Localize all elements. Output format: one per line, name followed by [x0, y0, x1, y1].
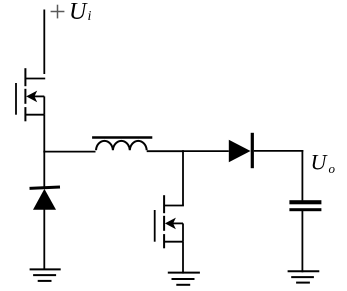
transistor Q1 (upper MOSFET)	[16, 68, 45, 121]
diode D1 (vertical, cathode up)	[29, 186, 60, 210]
wire: node A down to D1 cathode	[43, 152, 45, 187]
svg-text:U: U	[311, 149, 329, 174]
node A: junction of Q1 source, D1 cathode, inductor	[43, 151, 45, 153]
label +Ui (input voltage)	[51, 0, 92, 25]
wire: output corner down to capacitor top plate	[301, 150, 303, 200]
wire: node B down to Q2 drain	[182, 150, 184, 205]
label Uo (output voltage)	[311, 149, 336, 176]
svg-text:U: U	[69, 0, 88, 25]
diode D2 (horizontal, series output diode)	[229, 133, 254, 168]
svg-text:o: o	[329, 161, 336, 176]
wire: capacitor bottom plate to ground	[301, 211, 303, 272]
wire: +Ui down to Q1 drain	[43, 10, 45, 75]
wire: D1 anode down to ground	[43, 209, 45, 269]
transistor Q2 (lower MOSFET)	[155, 195, 184, 248]
ground (below Q2)	[168, 273, 200, 285]
capacitor C (output filter)	[289, 200, 321, 211]
ground (below D1)	[30, 269, 61, 281]
svg-text:i: i	[88, 9, 92, 24]
inductor L	[92, 138, 152, 151]
wire: inductor right terminal to node B	[147, 150, 183, 152]
wire: node A to inductor left terminal	[43, 151, 95, 153]
wire: node B to D2 anode	[183, 150, 229, 152]
wire: Q1 source down to node A	[43, 115, 45, 152]
node B: junction of inductor, Q2 drain, D2 anode	[182, 150, 184, 152]
wire: D2 cathode to output corner	[254, 150, 303, 152]
ground (below C, output return)	[288, 271, 320, 282]
wire: Q2 source down to ground	[182, 242, 184, 274]
